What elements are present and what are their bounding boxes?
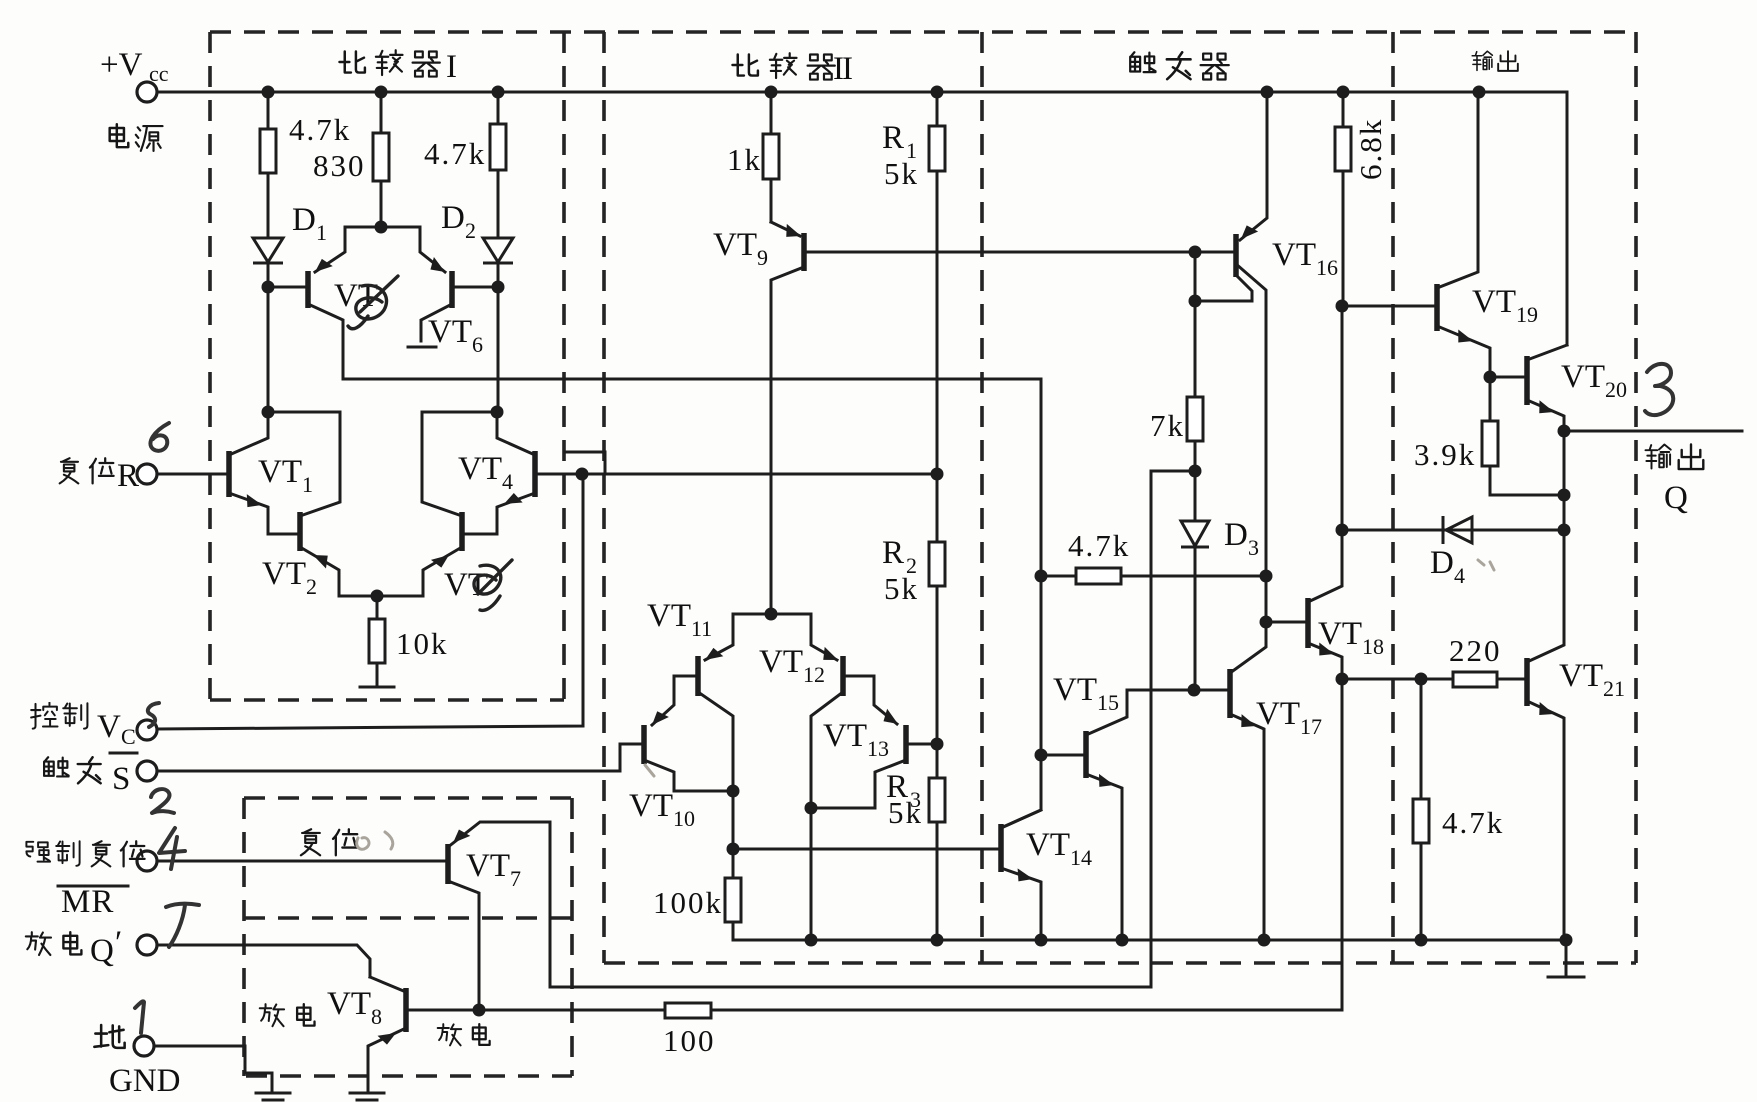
node R2/R3 junction — [931, 738, 944, 751]
label section discharge (放电) — [260, 1004, 315, 1026]
svg-text:2: 2 — [306, 574, 317, 599]
svg-text:11: 11 — [691, 616, 712, 641]
wire reset R to VT1 base — [157, 473, 229, 476]
ground GND symbol — [256, 1093, 290, 1100]
resistor 1k — [727, 92, 779, 222]
node rail end junction — [1560, 934, 1573, 947]
svg-text:VT: VT — [458, 451, 502, 487]
svg-text:C: C — [121, 724, 136, 749]
resistor 10k — [369, 596, 449, 686]
node common emitter VT2/VT5 — [371, 590, 384, 603]
svg-text:VT: VT — [327, 986, 371, 1022]
label handwritten pin 1 — [135, 1001, 144, 1033]
wire output Q line pin 3 — [1564, 430, 1742, 433]
svg-text:16: 16 — [1316, 255, 1338, 280]
resistor 100k — [653, 878, 741, 940]
svg-text:D: D — [1430, 545, 1454, 581]
svg-text:VT: VT — [1272, 237, 1316, 273]
wire VT14 base line — [733, 848, 1001, 851]
svg-text:9: 9 — [757, 245, 768, 270]
dashed box trigger — [982, 32, 1393, 963]
svg-text:cc: cc — [149, 61, 169, 86]
node 220 line left junction — [1336, 673, 1349, 686]
resistor 220 — [1342, 633, 1527, 687]
svg-text:GND: GND — [109, 1063, 181, 1099]
wire flip-flop output column — [1341, 306, 1344, 1010]
svg-text:10k: 10k — [396, 626, 449, 661]
svg-text:MR: MR — [61, 884, 114, 920]
transistor VT6 — [381, 227, 498, 357]
svg-text:R: R — [117, 458, 139, 494]
svg-text:19: 19 — [1516, 302, 1538, 327]
svg-text:VT: VT — [1561, 359, 1605, 395]
pencil smudge near D4 — [1478, 560, 1494, 570]
resistor 6.8k — [1335, 92, 1388, 306]
resistor R1 5k — [882, 92, 945, 474]
svg-text:7: 7 — [510, 866, 521, 891]
resistor 100 — [479, 1003, 1342, 1058]
resistor 4.7k (right, comparator I) — [490, 92, 506, 238]
ink scribble over VT3 label — [348, 276, 398, 329]
node VT7 collector junction — [473, 1004, 486, 1017]
svg-text:′: ′ — [115, 925, 122, 961]
svg-text:VT: VT — [466, 848, 510, 884]
node VT16 collector junction — [1189, 295, 1202, 308]
diode D4 — [1342, 516, 1564, 588]
ground VT6 emitter tie — [408, 346, 436, 349]
svg-text:1: 1 — [302, 472, 313, 497]
node 830 emitter junction — [375, 221, 388, 234]
svg-text:8: 8 — [371, 1004, 382, 1029]
svg-text:220: 220 — [1449, 633, 1502, 668]
wire trigger S to VT10 base — [157, 744, 644, 771]
node rail junctions comparator II — [805, 934, 944, 947]
svg-text:D: D — [292, 202, 316, 238]
label handwritten pin 5 — [148, 703, 159, 727]
svg-text:20: 20 — [1605, 377, 1627, 402]
label title output (输出) — [1472, 51, 1518, 71]
pencil tick near VT10 — [645, 765, 654, 776]
wire VT9 base to trigger — [804, 251, 1236, 254]
svg-text:830: 830 — [313, 148, 366, 183]
resistor 4.7k (left, comparator I) — [260, 92, 276, 238]
diode D3 — [1181, 471, 1259, 690]
svg-text:VT: VT — [629, 788, 673, 824]
svg-text:3.9k: 3.9k — [1414, 437, 1476, 472]
svg-text:1k: 1k — [727, 142, 762, 177]
svg-text:17: 17 — [1300, 714, 1322, 739]
ink scribble over VT5 label — [474, 560, 512, 610]
transistor VT11 — [647, 598, 733, 791]
transistor VT8 — [327, 977, 479, 1092]
terminal force reset MR pin 4 — [26, 841, 157, 920]
diode D1 — [253, 202, 327, 287]
svg-text:4.7k: 4.7k — [1068, 528, 1130, 563]
node VT13 emitter junction — [805, 802, 818, 815]
svg-text:13: 13 — [867, 736, 889, 761]
transistor VT21 — [1527, 658, 1625, 940]
svg-text:12: 12 — [803, 662, 825, 687]
label handwritten pin 3 — [1645, 364, 1673, 415]
ground VT8 emitter — [350, 1093, 384, 1100]
svg-text:4.7k: 4.7k — [1442, 805, 1504, 840]
node VT18 base junction — [1260, 616, 1273, 629]
transistor VT3 — [268, 227, 381, 379]
node VT4 collector junction — [422, 406, 504, 419]
transistor VT14 — [1001, 810, 1092, 940]
dashed box reset/discharge — [244, 798, 572, 1076]
node 220/4.7k junction — [1415, 673, 1428, 686]
svg-text:R: R — [882, 535, 904, 571]
terminal ground GND pin 1 — [94, 1025, 180, 1099]
node VT16 base junction — [1189, 246, 1202, 259]
svg-text:Q: Q — [1664, 480, 1688, 516]
terminal control Vc pin 5 — [31, 703, 157, 749]
node output junction — [1558, 425, 1571, 438]
svg-text:VT: VT — [428, 314, 472, 350]
label 输出 Q output — [1646, 445, 1704, 517]
svg-text:5k: 5k — [884, 156, 919, 191]
svg-text:VT: VT — [1318, 616, 1362, 652]
svg-text:+V: +V — [100, 47, 143, 83]
svg-text:VT: VT — [1053, 672, 1097, 708]
node VT10/VT11 collector junction — [727, 785, 740, 879]
dashed frame: top edge of all section boxes — [210, 30, 1636, 34]
svg-text:VT: VT — [258, 454, 302, 490]
svg-text:VT: VT — [444, 567, 488, 603]
svg-text:100k: 100k — [653, 885, 723, 920]
wire MR to VT7 base — [157, 860, 448, 863]
wire Q' to VT8 collector — [157, 945, 370, 977]
svg-text:VT: VT — [759, 644, 803, 680]
svg-text:5k: 5k — [884, 571, 919, 606]
ground 10k — [360, 686, 394, 689]
wire jog at comparator I/II boundary — [565, 452, 605, 474]
node D2 base junction — [492, 281, 505, 413]
svg-text:100: 100 — [663, 1023, 716, 1058]
ground output stage — [1548, 940, 1584, 977]
transistor VT13 — [811, 718, 937, 808]
terminal discharge Q' pin 7 — [26, 925, 157, 969]
node VT1 collector junction — [262, 406, 341, 419]
wire comparator I output down to VT15 base — [1003, 379, 1041, 827]
svg-text:I: I — [446, 49, 457, 85]
svg-text:4.7k: 4.7k — [424, 136, 486, 171]
transistor VT20 — [1490, 345, 1627, 431]
svg-text:II: II — [833, 51, 852, 87]
transistor VT15 — [1041, 672, 1230, 940]
node 4.7k bottom rail junction — [1415, 934, 1428, 947]
node 4.7k right junction — [1260, 570, 1273, 583]
transistor VT19 — [1342, 92, 1538, 377]
svg-text:5k: 5k — [888, 795, 923, 830]
svg-text:VT: VT — [823, 718, 867, 754]
node 6.8k bottom / VT19 base junction — [1336, 300, 1349, 313]
dashed box comparator II — [604, 32, 982, 963]
transistor VT4 — [458, 412, 582, 534]
svg-text:D: D — [441, 200, 465, 236]
transistor VT7 — [448, 822, 550, 1010]
label title comparator I (比较器 I) — [339, 49, 457, 85]
svg-text:V: V — [97, 709, 121, 745]
svg-text:S: S — [112, 761, 130, 797]
node rail junctions — [262, 86, 1486, 99]
wire flip-flop feedback to reset — [550, 471, 1195, 987]
wire control Vc to comparator junction — [157, 474, 583, 729]
wire VT21 collector column — [1527, 530, 1564, 662]
transistor VT17 — [1230, 622, 1322, 940]
svg-text:4: 4 — [502, 469, 513, 494]
terminal +Vcc pin 8 — [100, 47, 169, 102]
transistor VT9 — [713, 222, 804, 614]
svg-text:Q: Q — [90, 933, 114, 969]
svg-text:VT: VT — [262, 556, 306, 592]
resistor 7k — [1150, 252, 1203, 471]
svg-text:VT: VT — [647, 598, 691, 634]
terminal reset R pin 6 — [60, 458, 157, 494]
label section reset (复位) — [301, 829, 358, 855]
svg-text:4.7k: 4.7k — [289, 112, 351, 147]
transistor VT10 — [620, 725, 733, 831]
label handwritten pin 7 — [166, 904, 199, 947]
label handwritten pin 2 — [151, 789, 174, 813]
node VT15 base junction — [1035, 749, 1048, 762]
label handwritten pin 6 — [150, 423, 169, 451]
svg-text:VT: VT — [1026, 827, 1070, 863]
node rail junctions trigger — [1035, 934, 1271, 947]
wire ground rail — [733, 939, 1566, 942]
svg-text:4: 4 — [1454, 563, 1465, 588]
svg-text:R: R — [882, 120, 904, 156]
label discharge node (放电) — [438, 1024, 490, 1045]
label 电源 power — [110, 124, 163, 151]
transistor VT16 — [1195, 92, 1338, 622]
svg-text:14: 14 — [1070, 845, 1092, 870]
svg-text:VT: VT — [1256, 696, 1300, 732]
node 7k bottom junction — [1189, 465, 1202, 478]
transistor VT1 — [229, 412, 313, 534]
label title comparator II (比较器 II) — [732, 51, 852, 87]
node D1 base junction — [262, 281, 275, 413]
wire comparator I output line to trigger — [343, 378, 1041, 381]
label title trigger (触发器) — [1130, 52, 1229, 79]
node D3 bottom junction — [1188, 684, 1201, 697]
svg-text:1: 1 — [316, 220, 327, 245]
transistor VT2 — [262, 412, 377, 599]
resistor 3.9k — [1414, 377, 1564, 495]
node 3.9k bottom junction — [1558, 431, 1571, 531]
svg-text:7k: 7k — [1150, 408, 1185, 443]
svg-text:15: 15 — [1097, 690, 1119, 715]
svg-text:21: 21 — [1603, 676, 1625, 701]
svg-text:2: 2 — [465, 218, 476, 243]
svg-text:6: 6 — [472, 332, 483, 357]
label handwritten pin 4 — [159, 828, 185, 869]
resistor R2 5k — [882, 474, 945, 778]
wire GND to ground — [154, 1046, 272, 1091]
node base line junction — [727, 843, 740, 856]
resistor 4.7k (output pulldown) — [1413, 679, 1504, 940]
svg-text:VT: VT — [1559, 658, 1603, 694]
wire Vcc rail — [157, 92, 1567, 345]
resistor R3 5k — [886, 769, 945, 940]
svg-text:18: 18 — [1362, 634, 1384, 659]
diode D2 — [441, 200, 513, 287]
resistor 830 — [373, 92, 389, 227]
node D4 right junction — [1558, 524, 1571, 537]
wire threshold line to R1 bottom — [582, 473, 937, 476]
node VT11/VT12 emitter junction — [733, 608, 811, 621]
node VT20 base junction — [1484, 371, 1497, 384]
svg-text:VT: VT — [713, 227, 757, 263]
svg-text:D: D — [1224, 517, 1248, 553]
svg-text:3: 3 — [1248, 535, 1259, 560]
svg-text:6.8k: 6.8k — [1353, 118, 1388, 180]
svg-text:VT: VT — [1472, 284, 1516, 320]
dashed box comparator I — [210, 32, 564, 700]
terminal trigger S pin 2 — [44, 753, 157, 797]
transistor VT12 — [759, 614, 901, 940]
node 4.7k left junction — [1035, 570, 1048, 583]
node D4 left junction — [1336, 524, 1349, 537]
resistor 4.7k (trigger coupling) — [1041, 528, 1266, 584]
dashed box output — [1393, 32, 1636, 963]
svg-text:10: 10 — [673, 806, 695, 831]
node VT4 base / control junction — [576, 468, 589, 481]
pencil marks near reset label — [357, 832, 393, 849]
node R1 bottom junction — [931, 468, 944, 481]
transistor VT18 — [1266, 530, 1384, 679]
transistor VT5 — [377, 412, 488, 603]
